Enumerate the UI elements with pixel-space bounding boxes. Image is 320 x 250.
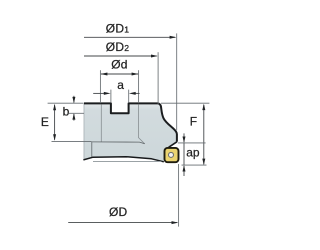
extension line ØD1 (176, 33, 178, 130)
arrowhead E top (53, 104, 56, 110)
arrowhead ap bottom (183, 165, 186, 171)
dimension tail b bottom (73, 114, 75, 121)
svg-text:b: b (63, 105, 70, 119)
insert pocket diagonal edge (169, 142, 177, 148)
extension line top face level (48, 102, 84, 104)
arrowhead F top (202, 104, 205, 110)
flange left step interior line (91, 142, 93, 157)
bottom rim far-side line (93, 160, 162, 162)
arrowhead ØD (172, 221, 179, 224)
arrowhead ØD1 (170, 36, 177, 39)
arrowhead F bottom (202, 159, 205, 165)
arrowhead a right (129, 92, 136, 95)
top face edge with drive slot and right chamfer (thick outline) (84, 103, 177, 141)
arrowhead ap top (183, 137, 186, 143)
arrowhead b top (72, 97, 75, 103)
arrowhead a left (104, 92, 111, 95)
arrowhead Ød left (101, 73, 108, 76)
bottom face edge (dished, thick outline) (83, 157, 163, 162)
extension line Ød left (99, 70, 101, 103)
body left silhouette edge (83, 104, 85, 159)
svg-text:E: E (41, 115, 49, 129)
svg-text:ØD1: ØD1 (106, 21, 129, 35)
dimension line ØD (68, 222, 177, 224)
milling cutter body (side view silhouette fill) (83, 103, 176, 161)
flange shoulder interior line (92, 142, 145, 144)
svg-text:Ød: Ød (111, 58, 127, 72)
dimension line ap (between extension lines) (183, 143, 185, 165)
extension line ØD2 (157, 52, 159, 104)
dimension tail ap bottom (183, 166, 185, 176)
svg-text:a: a (117, 78, 124, 92)
dimension line F (203, 105, 205, 165)
arrowhead Ød right (132, 73, 139, 76)
extension line b bottom (slot floor level) (69, 112, 84, 114)
dimension line E (54, 105, 56, 140)
extension line ØD (insert tip diameter) (178, 164, 180, 227)
dimension tail ap top (183, 133, 185, 142)
dimension line ØD2 (84, 55, 157, 57)
arrowhead E bottom (53, 134, 56, 140)
extension line F top (top face level right) (161, 102, 209, 104)
dimension tail a right (135, 92, 139, 94)
arbor bore right wall (interior line) (138, 105, 144, 144)
dimension line Ød (101, 73, 138, 75)
svg-text:ØD2: ØD2 (106, 40, 129, 54)
svg-text:F: F (190, 115, 197, 129)
svg-text:ap: ap (186, 146, 200, 160)
extension line Ød right (138, 70, 140, 103)
arrowhead b bottom (72, 113, 75, 119)
dimension line ØD1 (84, 36, 175, 38)
extension line E bottom (flange level) (52, 140, 92, 142)
arrowhead ØD2 (151, 55, 158, 58)
extension line ap top (cutting edge level) (178, 142, 206, 144)
dimension tail a left (93, 92, 104, 94)
svg-text:ØD: ØD (109, 205, 128, 219)
extension line a left (110, 90, 112, 103)
dimension tail b top (73, 96, 75, 103)
arbor bore left wall (interior line) (100, 105, 102, 142)
indexable insert (yellow) with clamp screw hole (165, 148, 179, 162)
extension line a right (128, 90, 130, 103)
extension line ap bottom (insert tip level) (182, 164, 207, 166)
